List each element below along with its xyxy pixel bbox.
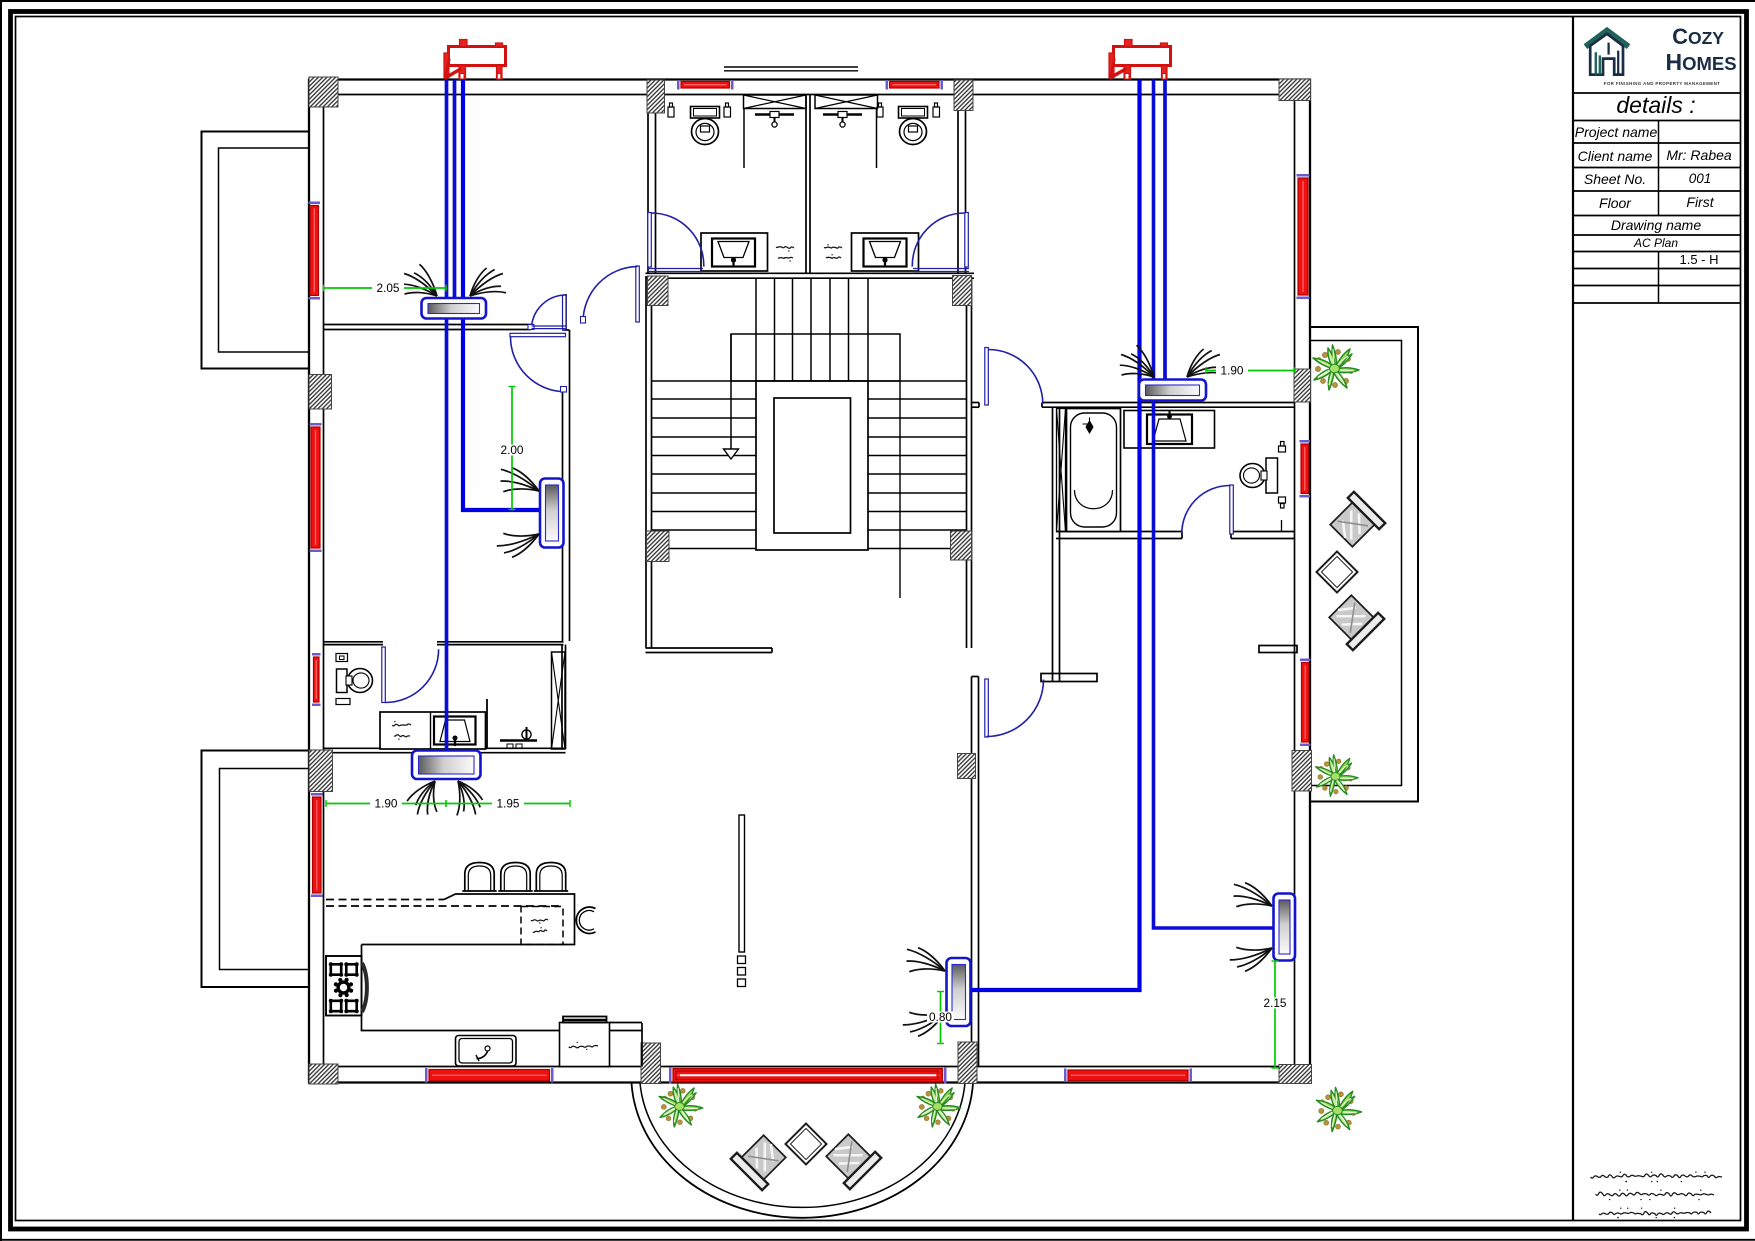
bathroom2 wall accessories: [877, 107, 883, 117]
wall: bathroom1 left: [647, 95, 649, 274]
wall: ensuite bath top (bedroom2 bottom): [324, 641, 384, 643]
kitchen bar stool 1: [465, 863, 494, 892]
shower box bathroom1: [744, 95, 807, 109]
AC pipe riser right 1 with elbow to living unit: [966, 80, 1140, 991]
kitchen fridge: [560, 1017, 610, 1067]
ensuite toilet: [337, 669, 373, 693]
dimension 0.80: [927, 992, 954, 1044]
svg-text:COZY: COZY: [1672, 24, 1724, 49]
svg-text:HOMES: HOMES: [1665, 49, 1736, 75]
dimension 1.90 right: [1206, 363, 1295, 377]
plant bottom-right corner: [1316, 1087, 1361, 1131]
svg-text:2.05: 2.05: [377, 281, 400, 295]
wall: ensuite half wall: [486, 699, 488, 749]
AC cassette top-right bedroom: [1139, 380, 1206, 401]
column right wall terrace top: [1294, 369, 1311, 402]
plant terrace top: [1313, 345, 1359, 390]
svg-text:AC Plan: AC Plan: [1633, 236, 1678, 250]
bathroom1 wall accessories: [668, 107, 674, 117]
door top-right bedroom: [985, 348, 1043, 406]
svg-text:1.90: 1.90: [375, 796, 398, 810]
door top-left bedroom: [532, 295, 567, 330]
AC cassette kitchen: [412, 751, 481, 780]
column bathroom2 right: [954, 80, 973, 111]
door mid-left bedroom: [510, 333, 566, 391]
page edge line top: [0, 0, 1755, 2]
svg-text:Mr: Rabea: Mr: Rabea: [1666, 147, 1732, 163]
kitchen stove: [326, 956, 367, 1016]
terrace armchair 1: [1326, 492, 1386, 552]
door bottom-right bedroom: [985, 679, 1044, 737]
door ensuite bathroom: [382, 647, 439, 703]
kitchen end round seat: [576, 907, 595, 933]
air squiggles cassette kitchen: [434, 781, 437, 812]
bathroom2 arabic label: [824, 247, 842, 248]
balcony diamond table: [785, 1123, 826, 1164]
glass door red strip balcony: [669, 1067, 947, 1084]
stair flight boundary line: [899, 381, 901, 598]
AC pipe riser right 3: [1163, 80, 1167, 383]
column bottom wall right of balcony: [958, 1042, 977, 1084]
balcony armchair left: [731, 1131, 791, 1191]
wall: top-right bedroom bottom: [971, 402, 979, 404]
door bathroom2: [912, 213, 968, 268]
wall: top bathrooms partition: [805, 95, 807, 274]
master bath toilet: [1240, 442, 1286, 532]
column top-right corner: [1279, 79, 1311, 101]
title block row lines: [1573, 93, 1741, 303]
air squiggles cassette top-right: [1122, 374, 1155, 377]
wall: master bathroom bottom: [1056, 531, 1182, 533]
left balcony protrusion bottom: [202, 751, 310, 988]
window red strip left wall kitchen: [311, 793, 323, 897]
kitchen bar stool 3: [536, 863, 565, 892]
svg-text:Client name: Client name: [1578, 148, 1653, 164]
AC pipe riser left 1: [445, 80, 449, 754]
AC condenser unit left: [444, 40, 506, 80]
stair left flight treads: [652, 381, 756, 549]
column stair top-right: [953, 276, 972, 306]
bathroom1 partition stub: [743, 109, 745, 168]
window red strip right wall top: [1297, 174, 1310, 299]
ensuite tall cabinet: [552, 652, 566, 749]
svg-text:2.00: 2.00: [501, 443, 524, 457]
svg-text:2.15: 2.15: [1264, 996, 1287, 1010]
plant balcony left: [659, 1084, 703, 1127]
svg-text:First: First: [1686, 194, 1714, 210]
window red strip left wall 3 small: [312, 653, 321, 706]
arabic note line 1: [1591, 1174, 1722, 1178]
wall: master bathroom left partition: [1052, 407, 1054, 682]
roof slab edge above stairs: [724, 66, 858, 68]
vanity sink bathroom1: [701, 233, 768, 271]
svg-text:Project name: Project name: [1575, 124, 1658, 140]
AC condenser unit right: [1109, 40, 1171, 80]
ensuite washer tap: [500, 727, 537, 749]
column bedroom wall mid: [958, 754, 976, 779]
window red strip left wall 2: [310, 423, 322, 552]
kitchen island dashed counter lines: [326, 899, 444, 901]
kitchen island outline: [362, 894, 575, 945]
AC pipe riser left 2: [453, 80, 457, 301]
vanity sink bathroom2: [852, 233, 919, 271]
column bottom wall left of balcony: [641, 1043, 661, 1084]
AC pipe riser left 3 with elbow to wall unit: [463, 80, 562, 511]
arabic note line 2: [1596, 1192, 1714, 1196]
column left wall kitchen: [309, 750, 333, 792]
svg-text:0.80: 0.80: [929, 1010, 952, 1024]
kitchen sink: [456, 1036, 517, 1067]
shower faucet bathroom1: [755, 113, 794, 116]
wall: stairwell bottom L: [646, 647, 773, 649]
ensuite vanity counter: [380, 712, 486, 749]
AC wall unit bedroom2: [540, 479, 564, 548]
door threshold top-left bedroom: [532, 325, 567, 327]
air squiggles wall unit bottom-right: [1236, 904, 1272, 907]
door threshold bathroom1: [647, 268, 703, 270]
ensuite paper holder: [336, 654, 348, 662]
svg-text:1.95: 1.95: [497, 796, 520, 810]
terrace diamond table: [1316, 551, 1357, 592]
window red strip right wall low: [1300, 659, 1311, 747]
dimension 1.90 kitchen: [326, 796, 446, 810]
page edge line bottom: [0, 1239, 1755, 1241]
bathroom1 arabic label: [776, 247, 794, 249]
column left wall upper: [309, 375, 332, 410]
column stair bottom-left: [647, 531, 670, 562]
kitchen island arabic label: [531, 919, 548, 921]
balcony armchair right: [822, 1130, 882, 1190]
stair central shaft outer: [756, 381, 868, 550]
door master bathroom: [1182, 485, 1234, 534]
svg-text:1.90: 1.90: [1221, 363, 1244, 377]
wall: bottom-right bedroom left: [971, 677, 973, 1067]
living room column marker: [739, 815, 745, 952]
svg-text:001: 001: [1689, 171, 1712, 186]
svg-text:Sheet No.: Sheet No.: [1584, 171, 1646, 187]
fridge arabic label: [569, 1045, 598, 1047]
window red strip bottom kitchen: [425, 1068, 554, 1083]
wall: corridor left / bedroom2 right: [562, 388, 564, 641]
svg-text:Floor: Floor: [1599, 195, 1632, 211]
window red strip bottom bedroom: [1064, 1069, 1192, 1083]
outer wall perimeter inner line: [324, 95, 1295, 1067]
air squiggles cassette top-left: [405, 293, 438, 296]
page edge line left: [0, 0, 2, 1241]
column stair bottom-right: [951, 531, 972, 560]
title block column divider: [1658, 121, 1660, 304]
wall: top-left bedroom bottom: [324, 324, 532, 326]
stair upper landing box: [731, 334, 900, 381]
bottom balcony arc outer: [632, 1083, 974, 1218]
door bathroom1: [648, 213, 704, 268]
ensuite arabic label: [392, 724, 411, 726]
arabic note line 3: [1599, 1211, 1711, 1215]
company logo house icon: [1585, 31, 1628, 75]
plant balcony right: [917, 1084, 961, 1127]
master bathtub: [1067, 409, 1121, 532]
window red strip left wall 1: [309, 202, 321, 300]
AC wall unit bottom-right bedroom: [1274, 894, 1296, 961]
shower faucet bathroom2: [823, 113, 862, 116]
column bottom-right corner: [1279, 1065, 1312, 1084]
column stair top-left: [648, 276, 669, 306]
wall: ensuite right: [561, 645, 563, 749]
door leaf end blocks: [581, 317, 586, 324]
stair direction line and arrow: [730, 334, 732, 449]
column bottom-left corner: [309, 1064, 338, 1084]
window red strip top bathroom2: [886, 80, 944, 90]
right terrace outline: [1310, 327, 1418, 802]
plant terrace bottom: [1316, 755, 1358, 796]
stair upper flight treads: [756, 278, 868, 381]
wall stub: bedroom entry T: [1041, 674, 1097, 682]
terrace armchair 2: [1325, 591, 1385, 651]
wall stub: bedroom top-right: [1259, 646, 1297, 653]
svg-text:1.5 - H: 1.5 - H: [1679, 252, 1718, 267]
window red strip right wall mid: [1300, 440, 1311, 498]
AC cassette top-left bedroom: [422, 298, 487, 319]
shower box bathroom2: [815, 95, 878, 109]
wall: bathrooms bottom: [646, 272, 975, 274]
kitchen bar stool 2: [501, 863, 530, 892]
dimension 2.05: [324, 281, 447, 295]
svg-text:FOR FINISHING AND PROPERTY MAN: FOR FINISHING AND PROPERTY MANAGEMENT: [1604, 81, 1721, 86]
wall: bathroom2 right / bedroom left: [957, 95, 959, 274]
dimension 1.95 kitchen: [446, 796, 570, 810]
window red strip top bathroom1: [677, 80, 734, 90]
outer wall perimeter outer line: [309, 80, 1310, 1083]
stair right flight treads: [868, 381, 967, 549]
stair central shaft inner: [774, 398, 851, 533]
dimension 2.00: [499, 387, 526, 510]
toilet bathroom1: [691, 107, 720, 145]
wall: stairwell left: [645, 276, 647, 648]
door corridor hall: [583, 266, 639, 322]
column top-left corner: [309, 77, 338, 107]
air squiggles wall unit living: [909, 969, 945, 972]
left balcony protrusion top: [202, 132, 310, 369]
kitchen island dashed appliance box: [521, 907, 563, 945]
column right wall terrace bottom: [1292, 751, 1312, 792]
svg-text:details :: details :: [1616, 92, 1695, 118]
kitchen counter inner edge: [362, 945, 643, 1031]
AC pipe riser right 2 with elbow to bedroom unit: [1154, 80, 1279, 929]
toilet bathroom2: [899, 107, 928, 145]
column bathroom1 left: [647, 80, 665, 113]
ensuite small shelf: [336, 699, 350, 705]
wall: stairwell right: [966, 278, 968, 648]
bathroom2 partition stub: [876, 109, 878, 168]
air squiggles wall unit bedroom2: [503, 489, 539, 492]
master bath sink counter: [1124, 411, 1215, 449]
title block left boundary: [1572, 17, 1574, 1221]
wall: ensuite bottom: [324, 747, 566, 749]
bottom balcony arc inner: [640, 1083, 965, 1207]
door threshold bathroom2: [913, 268, 969, 270]
dimension 2.15: [1262, 961, 1289, 1068]
balcony door inner white divider: [680, 1074, 936, 1076]
svg-text:Drawing name: Drawing name: [1611, 217, 1701, 233]
master bathtub hatch panel: [1057, 409, 1066, 532]
AC wall unit living: [947, 958, 971, 1026]
